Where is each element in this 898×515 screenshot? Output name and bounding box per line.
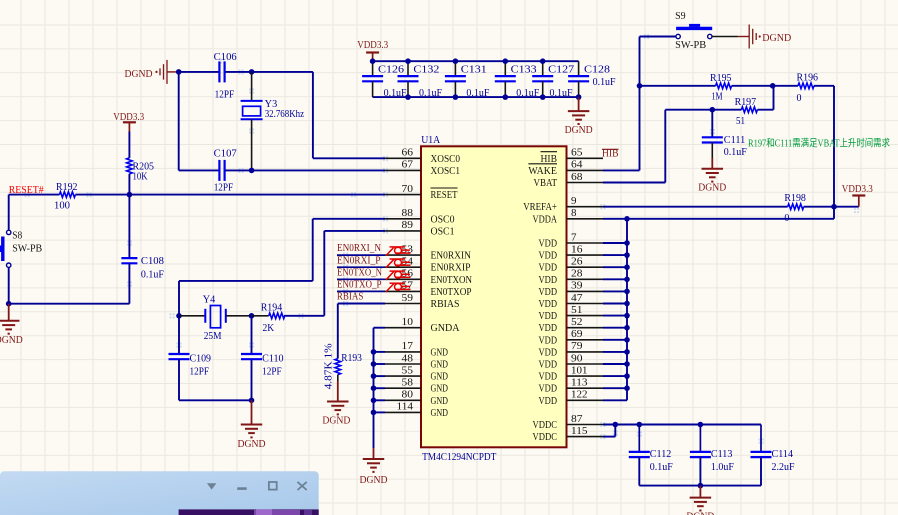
wire RESET to S8	[8, 195, 10, 230]
wire S8 to ground node	[8, 268, 10, 304]
svg-text:SW-PB: SW-PB	[675, 40, 706, 51]
ground DGND C111	[702, 158, 724, 182]
junction GND bus	[371, 398, 377, 404]
resistor R195 zigzag	[716, 83, 732, 89]
junction GND bus	[371, 361, 377, 367]
svg-text:67: 67	[402, 160, 414, 171]
junction VDD bus	[624, 361, 630, 367]
svg-text:XOSC0: XOSC0	[431, 154, 461, 165]
wire VBAT vertical	[664, 110, 666, 183]
svg-text:DGND: DGND	[565, 125, 593, 136]
resistor R194 zigzag	[269, 313, 285, 319]
resistor R205 zigzag	[127, 158, 133, 174]
wire R198 to VDD3.3 node	[804, 206, 834, 208]
wire XOSC0 rail left	[179, 71, 220, 73]
wire pin 89 OSC1	[324, 230, 385, 232]
svg-text:R194: R194	[261, 302, 283, 313]
wire S9 left	[640, 36, 676, 38]
wire left vertical of crystal cluster	[178, 72, 180, 170]
svg-text:79: 79	[571, 341, 583, 352]
svg-text:26: 26	[571, 257, 583, 268]
svg-text:C107: C107	[214, 148, 237, 159]
junction VDD bus	[624, 277, 630, 283]
svg-text:113: 113	[571, 378, 588, 389]
capacitor C126 0.1uF	[372, 61, 374, 76]
svg-text:66: 66	[402, 148, 414, 159]
svg-text:48: 48	[402, 353, 414, 364]
svg-text:4.87K 1%: 4.87K 1%	[324, 343, 335, 389]
wire R196 down to VDD3.3 node	[833, 86, 835, 207]
junction Y4 right	[249, 313, 255, 319]
svg-text:VDD3.3: VDD3.3	[842, 184, 873, 195]
svg-text:VDD: VDD	[539, 323, 558, 334]
capacitor C113 1.0uF	[699, 425, 701, 452]
wire cap bank top rail	[373, 60, 579, 62]
svg-text:DGND: DGND	[686, 512, 714, 515]
junction VDD bus	[624, 349, 630, 355]
junction GND bus	[371, 410, 377, 416]
junction C128 bottom	[576, 94, 582, 100]
svg-text:12PF: 12PF	[215, 90, 235, 101]
wire C108 top lead	[128, 195, 130, 259]
svg-text:64: 64	[571, 160, 583, 171]
svg-text:R197: R197	[735, 97, 757, 108]
wire pin 115 jog up	[614, 425, 616, 437]
svg-text:65: 65	[571, 148, 583, 159]
junction GND bus	[371, 349, 377, 355]
svg-text:VDD: VDD	[539, 335, 558, 346]
svg-text:122: 122	[571, 390, 588, 401]
pin 8 (VDDA) right	[533, 208, 604, 225]
ground DGND VDDC	[690, 486, 712, 511]
svg-text:VDD: VDD	[539, 347, 558, 358]
capacitor C110 plates	[241, 353, 262, 355]
svg-text:87: 87	[571, 414, 583, 425]
junction VDD bus	[624, 373, 630, 379]
junction VDD bus	[624, 264, 630, 270]
svg-text:OSC1: OSC1	[431, 226, 455, 237]
ground stem	[167, 71, 179, 73]
junction VDD bus	[624, 301, 630, 307]
svg-text:C111: C111	[724, 135, 746, 146]
wire to pin 66	[313, 157, 385, 159]
svg-text:EN0TXO_N: EN0TXO_N	[337, 267, 382, 278]
Y4 left lead	[179, 315, 205, 317]
svg-text:C114: C114	[772, 449, 794, 460]
R193 bottom lead	[337, 375, 339, 381]
svg-text:VDDC: VDDC	[533, 420, 558, 431]
junction GND bus	[371, 373, 377, 379]
svg-text:12PF: 12PF	[214, 183, 234, 194]
svg-text:VREFA+: VREFA+	[523, 202, 557, 213]
svg-text:55: 55	[402, 365, 414, 376]
svg-text:R192: R192	[56, 182, 78, 193]
wire pin 122 jog up	[626, 388, 628, 400]
wire C110 bottom lead	[251, 359, 253, 400]
svg-text:C128: C128	[584, 65, 610, 76]
svg-text:VDD3.3: VDD3.3	[357, 40, 388, 51]
wire OSC1 to R194	[284, 315, 324, 317]
wire C110 top lead	[251, 316, 253, 354]
pin 114 (GND) left	[385, 402, 448, 419]
wire to pin 67	[252, 169, 385, 171]
svg-text:GND: GND	[431, 347, 449, 358]
pin 90 (VDD) right	[539, 353, 604, 370]
wire R192 to pin 70	[75, 194, 385, 196]
pin 67 (XOSC1) left	[385, 160, 460, 177]
wire GND pin row 19	[374, 387, 386, 389]
junction C133 top	[503, 58, 509, 64]
pin 80 (GND) left	[385, 390, 448, 407]
junction C113 top	[698, 422, 704, 428]
junction C131 bottom	[453, 94, 459, 100]
svg-text:VDD: VDD	[539, 384, 558, 395]
pin 16 (VDD) right	[539, 244, 604, 261]
power bar VDD3.3 right	[852, 194, 865, 196]
wire C106 to Y3 top	[225, 71, 251, 73]
pin 53 (EN0RXIN) left	[385, 244, 471, 261]
capacitor C108 plates	[121, 257, 137, 259]
svg-text:GND: GND	[431, 408, 449, 419]
svg-text:GND: GND	[431, 384, 449, 395]
svg-text:C112: C112	[650, 449, 672, 460]
pin 51 (VDD) right	[539, 305, 604, 322]
junction VDD bus	[624, 385, 630, 391]
svg-text:DGND: DGND	[322, 415, 350, 426]
junction VDD bus	[624, 325, 630, 331]
pin 28 (VDD) right	[539, 269, 604, 286]
differential pair marker on EN0TXO_N pin	[386, 271, 411, 280]
svg-text:HIB: HIB	[602, 149, 619, 160]
pin 54 (EN0RXIP) left	[385, 257, 471, 274]
svg-text:0.1uF: 0.1uF	[550, 88, 573, 99]
wire pin 9 VREFA+ to R198	[603, 206, 788, 208]
svg-text:39: 39	[571, 281, 583, 292]
wire R205 to RESET net	[128, 174, 130, 195]
svg-text:C133: C133	[511, 65, 537, 76]
capacitor C128 plates	[568, 75, 589, 77]
capacitor C112 0.1uF	[638, 425, 640, 452]
Y3 bottom lead	[251, 119, 253, 170]
C113 bottom lead	[699, 457, 701, 486]
svg-text:47: 47	[571, 293, 583, 304]
net label EN0RXI_N with wire stub	[337, 254, 385, 256]
svg-text:C106: C106	[214, 52, 237, 63]
svg-text:16: 16	[571, 244, 583, 255]
wire R195 to R196	[732, 85, 773, 87]
wire C109-C110 bottom rail	[179, 399, 252, 401]
junction R195/R196/R197	[770, 83, 776, 89]
svg-text:0.1uF: 0.1uF	[650, 462, 673, 473]
wire R197 up to R195/R196	[773, 86, 775, 110]
window minimize button	[237, 487, 247, 490]
svg-text:GND: GND	[431, 396, 449, 407]
svg-text:80: 80	[402, 390, 414, 401]
wire GND pin row 16	[374, 351, 386, 353]
pin 39 (VDD) right	[539, 281, 604, 298]
svg-text:VDDA: VDDA	[533, 214, 558, 225]
svg-text:SW-PB: SW-PB	[12, 244, 42, 255]
svg-text:0.1uF: 0.1uF	[466, 88, 489, 99]
wire R196 right	[814, 85, 834, 87]
capacitor C107 plates	[218, 160, 220, 181]
svg-text:0: 0	[797, 93, 802, 104]
wire VDDC bottom rail	[639, 485, 761, 487]
svg-text:52: 52	[571, 317, 583, 328]
wire S9 to pin 64 vertical	[639, 37, 641, 171]
wire VDD pin row 12	[603, 303, 627, 305]
svg-text:VDD: VDD	[539, 372, 558, 383]
svg-text:VBAT: VBAT	[534, 178, 558, 189]
junction R197/C111/VBAT	[710, 107, 716, 113]
pin 70 (RESET) left	[385, 184, 458, 201]
svg-text:90: 90	[571, 353, 583, 364]
capacitor C132 0.1uF	[407, 61, 409, 76]
junction C131 top	[453, 58, 459, 64]
svg-text:51: 51	[736, 116, 745, 127]
junction VDD bus top	[624, 216, 630, 222]
wire OSC0 vertical	[312, 219, 314, 281]
wire VDD pin row 14	[603, 327, 627, 329]
capacitor C133 0.1uF	[504, 61, 506, 76]
resistor R193 zigzag	[335, 359, 341, 375]
svg-text:68: 68	[571, 172, 583, 183]
wire VDDC top rail	[603, 424, 761, 426]
svg-text:12PF: 12PF	[262, 367, 282, 378]
ground bars DGND S9	[749, 25, 761, 49]
pin 10 (GNDA) left	[385, 317, 460, 334]
capacitor C132 plates	[398, 75, 419, 77]
wire GND bus vertical	[373, 328, 375, 448]
pin 88 (OSC0) left	[385, 208, 455, 225]
stem VDD3.3 bank	[372, 53, 374, 62]
junction C113 bottom	[698, 483, 704, 489]
wire OSC1 vertical	[323, 231, 325, 316]
wire C111 top lead	[711, 110, 713, 138]
pin 57 (EN0TXOP) left	[385, 281, 472, 298]
pin 66 (XOSC0) left	[385, 148, 460, 165]
pin 113 (VDD) right	[539, 378, 604, 395]
C114 bottom lead	[760, 457, 762, 486]
wire C109 bottom lead	[178, 359, 180, 400]
wire VDD pin row 17	[603, 363, 627, 365]
svg-text:32.768Khz: 32.768Khz	[265, 109, 305, 120]
svg-text:2.2uF: 2.2uF	[772, 462, 795, 473]
pin 89 (OSC1) left	[385, 220, 455, 237]
pin 101 (VDD) right	[539, 365, 604, 382]
wire VDD pin row 13	[603, 315, 627, 317]
wire RBIAS down to R193	[337, 304, 339, 359]
svg-text:GND: GND	[431, 360, 449, 371]
pin 48 (GND) left	[385, 353, 448, 370]
pin 52 (VDD) right	[539, 317, 604, 334]
junction VDD3.3 stem	[370, 58, 376, 64]
window caret button	[207, 483, 217, 489]
svg-text:C113: C113	[711, 449, 733, 460]
svg-text:U1A: U1A	[421, 135, 441, 146]
wire VDDA up to VDD3.3 node	[833, 207, 835, 219]
svg-text:DGND: DGND	[762, 33, 791, 44]
pin 56 (EN0TXON) left	[385, 269, 472, 286]
junction GND bus	[371, 385, 377, 391]
junction VDD bus	[624, 289, 630, 295]
pin 79 (VDD) right	[539, 341, 604, 358]
svg-text:HIB: HIB	[541, 154, 558, 165]
wire VDD pin row 15	[603, 339, 627, 341]
junction RESET net	[127, 192, 133, 198]
junction S8 ground node	[6, 301, 12, 307]
svg-text:VDD: VDD	[539, 251, 558, 262]
svg-text:R193: R193	[341, 353, 362, 364]
svg-text:1M: 1M	[712, 91, 723, 102]
wire VDD pin row 18	[603, 375, 627, 377]
wire down to Y4 left	[178, 281, 180, 316]
junction pin115/87	[613, 422, 619, 428]
svg-text:TM4C1294NCPDT: TM4C1294NCPDT	[422, 452, 496, 463]
wire VDD pin row 10	[603, 278, 627, 280]
svg-text:RESET: RESET	[431, 190, 458, 201]
svg-text:VDD: VDD	[539, 360, 558, 371]
svg-text:XOSC1: XOSC1	[431, 166, 461, 177]
C112 bottom lead	[638, 457, 640, 486]
capacitor C131 0.1uF	[454, 61, 456, 76]
junction VDD bus	[624, 240, 630, 246]
wire RESET left	[9, 194, 60, 196]
hotspot markers (decorative)	[25, 34, 860, 444]
resistor R198 zigzag	[788, 204, 804, 210]
svg-text:10K: 10K	[133, 171, 149, 182]
wire VDD3.3 to R205	[128, 132, 130, 158]
junction C112 top	[637, 422, 643, 428]
svg-text:2K: 2K	[263, 323, 275, 334]
svg-text:OSC0: OSC0	[431, 214, 455, 225]
svg-text:DGND: DGND	[360, 475, 388, 486]
wire to VDD3.3 port	[834, 206, 859, 208]
svg-text:89: 89	[402, 220, 414, 231]
svg-text:17: 17	[402, 341, 414, 352]
svg-text:R196: R196	[797, 73, 819, 84]
svg-text:1.0uF: 1.0uF	[711, 462, 734, 473]
wire C109 top lead	[178, 316, 180, 354]
wire pin 68 VBAT	[603, 182, 665, 184]
svg-text:DGND: DGND	[0, 335, 23, 346]
svg-text:Y4: Y4	[203, 294, 216, 305]
svg-text:C108: C108	[141, 256, 164, 267]
power bar VDD3.3 bank	[366, 51, 379, 53]
svg-text:RBIAS: RBIAS	[431, 299, 460, 310]
svg-text:VDD: VDD	[539, 311, 558, 322]
capacitor C111 plates	[702, 136, 723, 138]
svg-text:C126: C126	[378, 65, 404, 76]
ground DGND R193	[327, 381, 349, 414]
window close button	[298, 482, 307, 490]
svg-text:C110: C110	[262, 353, 284, 364]
wire pin 8 VDDA	[603, 218, 834, 220]
IC U1A TM4C1294NCPDT	[421, 146, 567, 447]
svg-text:0.1uF: 0.1uF	[419, 88, 442, 99]
R194 left lead	[252, 315, 269, 317]
wire R197 right	[757, 109, 773, 111]
ground DGND Y4 cluster	[241, 400, 263, 437]
stem VDD3.3	[128, 122, 130, 131]
junction C127 bottom	[540, 94, 546, 100]
wire GND pin row 18	[374, 375, 386, 377]
resistor R192 zigzag	[59, 192, 75, 198]
svg-text:28: 28	[571, 269, 583, 280]
pin 59 (RBIAS) left	[385, 293, 460, 310]
svg-text:114: 114	[397, 402, 414, 413]
pin 17 (GND) left	[385, 341, 448, 358]
resistor R197 zigzag	[741, 107, 757, 113]
capacitor C112 plates	[629, 451, 650, 453]
svg-text:VDD: VDD	[539, 299, 558, 310]
pin 69 (VDD) right	[539, 329, 604, 346]
junction node XOSC0 rail	[176, 69, 182, 75]
junction VDD bus	[624, 337, 630, 343]
svg-text:100: 100	[54, 201, 70, 212]
wire to pin 64 WAKE	[603, 169, 640, 171]
resistor R196 zigzag	[798, 83, 814, 89]
pin 55 (GND) left	[385, 365, 448, 382]
wire vertical to pin 66	[312, 72, 314, 158]
svg-text:12PF: 12PF	[190, 367, 210, 378]
svg-text:DGND: DGND	[238, 439, 266, 450]
C111 bottom lead	[711, 143, 713, 159]
svg-text:VDD: VDD	[539, 239, 558, 250]
pin 47 (VDD) right	[539, 293, 604, 310]
svg-text:0.1uF: 0.1uF	[141, 269, 164, 280]
wire VDD pin row 19	[603, 387, 627, 389]
svg-text:7: 7	[571, 232, 577, 243]
svg-text:0.1uF: 0.1uF	[593, 77, 616, 88]
junction Y4 left	[176, 313, 182, 319]
Y4 right lead	[226, 315, 251, 317]
svg-text:EN0TXOP: EN0TXOP	[431, 287, 472, 298]
stem VDD3.3 right	[858, 196, 860, 207]
pin 64 (WAKE) right	[528, 160, 603, 177]
differential pair marker on EN0RXI_N pin	[386, 247, 411, 256]
ground DGND cap bank	[568, 97, 590, 124]
ground DGND GND bus	[363, 448, 385, 472]
svg-text:VDD: VDD	[539, 287, 558, 298]
svg-text:9: 9	[571, 196, 577, 207]
junction C132 top	[405, 58, 411, 64]
capacitor C127 0.1uF	[542, 61, 544, 76]
junction Y3 bottom	[249, 168, 255, 174]
svg-text:8: 8	[571, 208, 577, 219]
svg-text:C131: C131	[461, 65, 487, 76]
svg-text:115: 115	[571, 426, 588, 437]
wire to R196	[773, 85, 798, 87]
pin 26 (VDD) right	[539, 257, 604, 274]
wire XOSC1 rail left	[179, 169, 220, 171]
svg-text:S9: S9	[675, 11, 686, 22]
svg-text:58: 58	[402, 378, 414, 389]
wire to R195	[640, 85, 716, 87]
wire VDD pin row 9	[603, 266, 627, 268]
svg-text:69: 69	[571, 329, 583, 340]
wire C108 bottom lead	[128, 263, 130, 303]
pin 58 (GND) left	[385, 378, 448, 395]
svg-text:R198: R198	[784, 193, 806, 204]
svg-text:GNDA: GNDA	[431, 323, 461, 334]
svg-text:C109: C109	[190, 353, 212, 364]
svg-text:DGND: DGND	[698, 182, 726, 193]
differential pair marker on EN0TXO_P pin	[386, 283, 411, 292]
pin 65 (HIB) right	[541, 148, 604, 165]
pin 115 (VDDC) right	[533, 426, 604, 443]
purple toolbar strip	[179, 509, 319, 515]
